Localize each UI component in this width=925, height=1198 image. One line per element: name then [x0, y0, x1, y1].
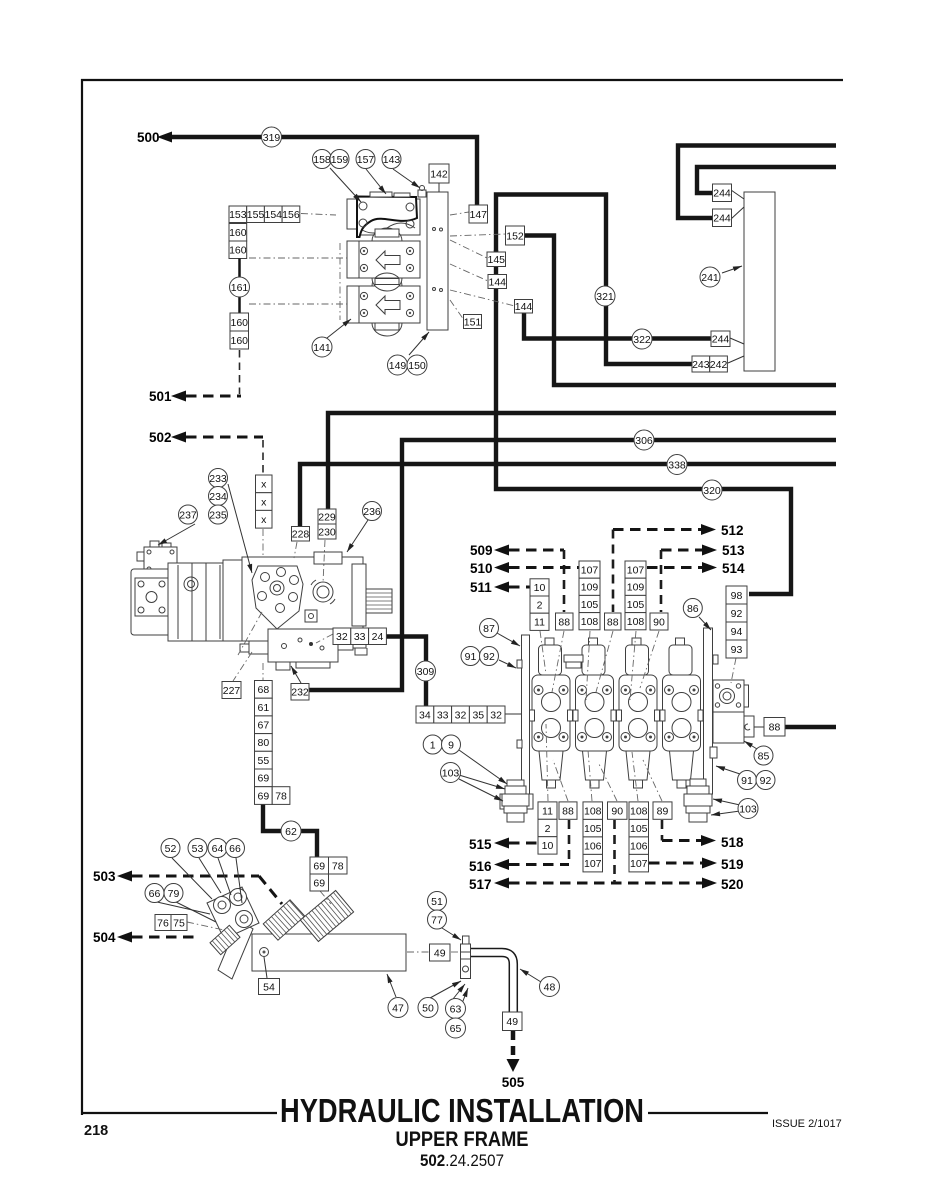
leader arrow from circles 51/77 to fitting: [442, 928, 461, 940]
page border frame bottom-right segment: [648, 1112, 768, 1114]
svg-text:x: x: [261, 514, 267, 526]
fitting 88 a: [556, 613, 574, 630]
svg-text:106: 106: [630, 840, 648, 852]
fittings 61 67 80 55 69: [255, 698, 273, 787]
svg-text:67: 67: [258, 720, 270, 732]
svg-text:161: 161: [231, 282, 249, 294]
port 518 arrow from fitting 89: [662, 820, 744, 850]
hose 62: [281, 821, 301, 841]
valve bank outlet block (85 target): [713, 680, 749, 712]
svg-text:513: 513: [722, 543, 745, 558]
svg-text:501: 501: [149, 389, 172, 404]
hose 320 from fitting 144 down and right to valve bank fitting 98: [496, 250, 791, 594]
dash-dot leaders from fittings 153-156 to valve modules: [301, 214, 336, 216]
fittings 69 78 upper: [255, 787, 290, 805]
dash-dot leaders from upper fittings to valve sections: [540, 631, 546, 674]
valve bank section 2: [573, 638, 616, 788]
dash-dot leaders from plate to fittings 147/152/145/144/144/151: [450, 212, 469, 215]
svg-text:160: 160: [230, 335, 248, 347]
svg-text:85: 85: [758, 750, 770, 762]
hose 306: [634, 430, 654, 450]
fitting 89: [653, 802, 672, 819]
bolt 51: [428, 892, 447, 911]
fittings 160 160 upper: [229, 224, 247, 259]
washer 92 a: [480, 647, 499, 666]
leader dashed from fittings 160 to port 501: [239, 350, 241, 394]
svg-text:92: 92: [760, 775, 772, 787]
dash-dot leader from fitting 98 stack to outlet: [731, 658, 736, 683]
port 504 arrow: [93, 930, 194, 945]
svg-text:55: 55: [258, 755, 270, 767]
tank port B (69 target) hatched: [300, 890, 353, 941]
svg-text:35: 35: [472, 709, 484, 721]
leader from outlet to fitting 88: [754, 726, 764, 728]
hose 62 between fittings 69/78: [263, 804, 317, 858]
svg-text:155: 155: [247, 209, 265, 221]
port 510 arrow from fitting 107: [470, 561, 579, 576]
svg-text:517: 517: [469, 877, 492, 892]
valve module left stubs: [347, 199, 359, 229]
fittings 69 78 lower: [310, 857, 347, 874]
svg-text:103: 103: [442, 767, 460, 779]
svg-text:511: 511: [470, 580, 492, 595]
dash-dot leader from fittings X to pump: [262, 529, 264, 558]
plate 235: [209, 505, 228, 524]
leader from circle 241 to cooler: [722, 266, 742, 273]
hose 322 from fitting 144 to cooler fitting 244: [524, 312, 713, 339]
valve bank section 1: [530, 638, 573, 788]
fittings 108 105 106 107 second lower: [629, 802, 649, 872]
leader arrow from circles 91/92 to left plate: [499, 660, 516, 668]
valve assembly 141 mounting plate 142: [427, 192, 448, 330]
svg-text:244: 244: [712, 334, 730, 346]
svg-text:11: 11: [534, 617, 545, 629]
leader from circles 158/159 to bracket bolt: [330, 168, 361, 202]
dash-dot leader from fittings 229/230 to port ring: [323, 540, 325, 583]
svg-text:107: 107: [627, 564, 645, 576]
svg-text:244: 244: [713, 188, 731, 200]
fittings 98 92 94 93: [726, 586, 747, 658]
svg-text:UPPER FRAME: UPPER FRAME: [396, 1128, 529, 1151]
fitting 88 b: [605, 613, 622, 630]
svg-text:88: 88: [769, 722, 781, 734]
svg-text:88: 88: [562, 805, 574, 817]
fitting 244 upper: [713, 184, 732, 202]
pump valve 237 on motor top: [137, 541, 177, 574]
svg-text:160: 160: [229, 245, 247, 257]
leader arrow from circles 1/9 to filter: [459, 750, 507, 784]
dash-dot leaders from lower fittings to valve sections: [546, 724, 548, 801]
svg-text:98: 98: [731, 590, 743, 602]
hose 322: [632, 329, 652, 349]
svg-text:229: 229: [318, 511, 336, 523]
port 509 arrow from fitting 88: [470, 543, 564, 612]
fittings 107 109 105 108 second: [625, 561, 646, 630]
svg-text:237: 237: [179, 509, 197, 521]
svg-text:93: 93: [731, 644, 743, 656]
svg-text:106: 106: [584, 840, 602, 852]
bracket 157: [356, 150, 375, 169]
tank 47: [388, 998, 408, 1018]
fitting 142: [429, 164, 449, 183]
svg-text:503: 503: [93, 869, 116, 884]
leader arrows from circle 103 left to filter: [459, 775, 505, 789]
svg-text:244: 244: [713, 213, 731, 225]
hose 309: [416, 661, 436, 681]
leader from circle 157 to bracket: [366, 169, 386, 194]
svg-text:107: 107: [630, 858, 648, 870]
leader arrows from circle 103 right to filter: [713, 799, 740, 805]
svg-text:241: 241: [701, 272, 719, 284]
svg-text:69: 69: [258, 790, 270, 802]
fittings 76 75: [155, 915, 187, 931]
fitting 49 b: [503, 1012, 523, 1031]
fitting 227: [222, 682, 241, 699]
port 502 arrow: [149, 430, 263, 445]
hose 319: [262, 127, 282, 147]
svg-text:32: 32: [336, 631, 348, 643]
fitting 151: [464, 315, 482, 329]
svg-text:105: 105: [581, 599, 599, 611]
svg-text:109: 109: [581, 582, 599, 594]
svg-text:105: 105: [584, 823, 602, 835]
pump port 229/230 ring: [311, 580, 335, 604]
svg-text:2: 2: [545, 823, 551, 835]
svg-text:107: 107: [584, 858, 602, 870]
fittings 34 33 32 35 32: [416, 706, 505, 723]
fittings 32 33 24: [333, 628, 386, 645]
svg-text:49: 49: [506, 1016, 518, 1028]
valve module 3 (bottom): [359, 286, 420, 323]
svg-text:160: 160: [230, 317, 248, 329]
hose from cooler lower fitting 244 exiting right edge: [678, 146, 836, 219]
valve bank 1: [423, 735, 442, 754]
bracket top tabs: [370, 192, 392, 197]
page border frame top: [81, 79, 843, 81]
svg-text:62: 62: [285, 826, 297, 838]
valve bank right end plate 86: [704, 628, 719, 794]
svg-text:505: 505: [502, 1075, 525, 1090]
svg-text:151: 151: [464, 316, 482, 328]
leader arrows from circles 63/65 to fitting: [453, 984, 465, 999]
hose 320: [702, 480, 722, 500]
valve module 1 (top): [359, 199, 420, 235]
svg-text:34: 34: [419, 709, 431, 721]
svg-text:108: 108: [627, 616, 645, 628]
svg-text:69: 69: [313, 877, 325, 889]
hose 338 from pump fitting 228 exiting right edge: [300, 464, 836, 528]
pump small port block: [305, 610, 317, 622]
svg-text:309: 309: [417, 666, 435, 678]
leader arrow from circles 91/92 to right plate: [716, 766, 740, 774]
svg-text:49: 49: [434, 947, 446, 959]
svg-text:32: 32: [455, 709, 467, 721]
fitting 69: [310, 874, 329, 891]
fittings 243 242: [692, 356, 727, 372]
fittings 160 160 lower: [230, 313, 249, 349]
pump housing center section: [168, 563, 242, 641]
svg-text:141: 141: [313, 342, 331, 354]
seal 66 b: [145, 884, 164, 903]
fitting 143 on top of plate: [418, 186, 426, 198]
port 505 arrow: [502, 1031, 525, 1090]
fittings 107 109 105 108 first: [579, 561, 600, 630]
svg-text:150: 150: [408, 360, 426, 372]
svg-text:160: 160: [229, 227, 247, 239]
svg-text:242: 242: [710, 359, 728, 371]
svg-text:512: 512: [721, 523, 744, 538]
bracket 157 (curved cover): [357, 197, 417, 238]
svg-text:319: 319: [263, 132, 281, 144]
tank port A (503 target) hatched: [263, 900, 304, 940]
svg-text:232: 232: [291, 687, 309, 699]
svg-text:227: 227: [223, 685, 241, 697]
svg-text:69: 69: [313, 860, 325, 872]
svg-text:109: 109: [627, 582, 645, 594]
fitting 50: [418, 998, 438, 1018]
filter 103 right: [738, 799, 758, 819]
valve module 2 (middle): [359, 241, 420, 278]
svg-text:2: 2: [537, 599, 543, 611]
svg-text:230: 230: [318, 526, 336, 538]
svg-text:509: 509: [470, 543, 493, 558]
fitting 152: [506, 226, 525, 245]
port 515 arrow from fitting 10: [469, 837, 538, 852]
valve 237: [179, 505, 198, 524]
svg-text:306: 306: [635, 435, 653, 447]
svg-text:x: x: [261, 496, 267, 508]
hose 48 from fitting 50 to port 505 (outlined tube): [469, 953, 513, 1013]
hose from cooler upper fitting 244 exiting right edge: [697, 167, 836, 193]
svg-text:80: 80: [258, 737, 270, 749]
svg-text:33: 33: [354, 631, 366, 643]
svg-text:88: 88: [607, 616, 619, 628]
svg-text:48: 48: [544, 981, 556, 993]
svg-text:x: x: [261, 479, 267, 491]
hose 48: [540, 977, 560, 997]
fitting 144 lower: [515, 300, 533, 314]
svg-text:88: 88: [558, 616, 570, 628]
pump port face plate (233/234/235 target): [252, 566, 303, 629]
leader lines from circles 66/79 to block: [157, 902, 210, 914]
fitting 54: [259, 979, 280, 995]
svg-text:50: 50: [422, 1002, 434, 1014]
leader from fitting 54 to port: [264, 957, 267, 978]
washer 92 b: [756, 771, 775, 790]
fitting 68: [255, 681, 273, 699]
svg-text:236: 236: [363, 506, 381, 518]
hose from pump fittings 229/230 exiting right edge: [328, 413, 836, 510]
filter unit left (103): [502, 780, 529, 822]
svg-text:516: 516: [469, 859, 492, 874]
leader from fitting 232 to block: [291, 666, 301, 683]
valve bank outlet lower block: [713, 712, 754, 743]
hose from fitting 152 exiting right edge: [524, 236, 836, 386]
hose 319 from port 500 to fitting 147: [171, 137, 477, 205]
fitting 49 a: [430, 944, 451, 961]
svg-text:90: 90: [653, 616, 665, 628]
pump control valve block 227/232: [240, 629, 366, 670]
svg-text:145: 145: [487, 254, 505, 266]
leader arrow from circle 86 to right plate: [699, 617, 711, 630]
svg-text:69: 69: [258, 773, 270, 785]
washer 159: [330, 150, 349, 169]
port 54 on tank: [260, 948, 269, 957]
svg-text:105: 105: [627, 599, 645, 611]
svg-text:149: 149: [389, 360, 407, 372]
leader from circle 141 to valve body: [327, 319, 351, 338]
fitting 244 second: [713, 209, 732, 227]
svg-text:159: 159: [331, 154, 349, 166]
bolt 149: [388, 355, 408, 375]
bolt 91 a: [461, 647, 480, 666]
inter-module connector domes: [372, 228, 402, 241]
hose 321: [595, 286, 615, 306]
svg-text:78: 78: [275, 790, 287, 802]
leader from circle 143 to fitting: [393, 169, 420, 188]
leader arrow from circle 85 to outlet block: [744, 741, 757, 749]
filter 103 left: [441, 763, 461, 783]
port 513 arrow from fitting 90: [661, 543, 745, 612]
port 500 arrow: [137, 130, 172, 145]
svg-text:92: 92: [483, 651, 495, 663]
leader from fittings 34/33/32/35/32 to left plate: [505, 713, 521, 715]
valve bank left end plate 87: [500, 635, 533, 809]
pump 236: [363, 502, 382, 521]
svg-text:158: 158: [313, 154, 331, 166]
leader from circles 149/150 to plate bottom: [409, 332, 429, 355]
svg-text:235: 235: [209, 509, 227, 521]
dash-dot leader from block to fitting 227: [233, 652, 252, 681]
tank end plate 54 area: [218, 920, 253, 979]
port 516 arrow from fitting 88: [469, 820, 569, 874]
svg-text:153: 153: [229, 209, 247, 221]
hose 338: [667, 455, 687, 475]
svg-text:64: 64: [212, 843, 224, 855]
leader lines from circles 52/53/64/66 to block: [172, 858, 212, 899]
svg-text:144: 144: [488, 276, 506, 288]
washer 150: [407, 355, 427, 375]
leader arrows from circles 233/234/235 to pump face plate: [228, 484, 252, 573]
valve 141: [312, 337, 332, 357]
svg-text:75: 75: [173, 917, 185, 929]
fittings 153 155 154 156: [229, 206, 300, 223]
fitting 228: [292, 527, 310, 542]
dash-dot leader from fitting 228 to pump: [294, 542, 297, 558]
svg-text:33: 33: [437, 709, 449, 721]
svg-text:63: 63: [450, 1003, 462, 1015]
tank 47 body: [252, 934, 406, 971]
washer 234: [209, 487, 228, 506]
svg-text:152: 152: [506, 230, 524, 242]
block 85: [754, 746, 773, 765]
svg-text:91: 91: [465, 651, 477, 663]
svg-text:108: 108: [581, 616, 599, 628]
svg-text:157: 157: [357, 154, 375, 166]
svg-text:322: 322: [633, 334, 651, 346]
svg-text:103: 103: [739, 803, 757, 815]
svg-text:234: 234: [209, 491, 227, 503]
svg-text:144: 144: [515, 301, 533, 313]
hatched stub fitting below block (76/75 target): [210, 925, 240, 954]
leader from box 142 to plate: [438, 183, 440, 192]
svg-text:338: 338: [668, 459, 686, 471]
fitting 143: [382, 150, 401, 169]
wire link 160 to 161: [238, 259, 241, 315]
svg-text:243: 243: [692, 359, 710, 371]
pump end plate: [223, 560, 242, 641]
port 519 arrow from fitting 107: [649, 857, 744, 872]
leaders from fittings 244/243/242 to cooler: [731, 190, 744, 199]
part 63: [446, 999, 466, 1019]
svg-text:94: 94: [731, 626, 743, 638]
svg-text:320: 320: [703, 485, 721, 497]
svg-text:502: 502: [149, 430, 172, 445]
svg-text:143: 143: [383, 154, 401, 166]
svg-text:10: 10: [534, 582, 546, 594]
svg-text:32: 32: [490, 709, 502, 721]
fittings 229 230: [318, 509, 336, 539]
valve bank section 4: [660, 638, 703, 788]
svg-text:147: 147: [469, 209, 487, 221]
hose 306 from pump fitting 232 exiting right edge: [309, 440, 836, 690]
fitting 161: [230, 277, 250, 297]
svg-text:53: 53: [192, 843, 204, 855]
dash-dot leader from pump face to fitting 227 area: [238, 612, 262, 655]
svg-text:518: 518: [721, 835, 744, 850]
port 511 arrow from fitting 10: [470, 580, 530, 595]
dash-dot leader from block to fitting 68: [262, 663, 264, 680]
svg-text:321: 321: [596, 291, 614, 303]
fitting 147: [469, 205, 488, 223]
page border frame left: [81, 79, 83, 1115]
fitting 88 lower: [559, 802, 577, 819]
svg-text:66: 66: [229, 843, 241, 855]
hose from valve bank outlet fitting 88 exiting right edge: [784, 725, 836, 729]
svg-text:68: 68: [258, 684, 270, 696]
U-clip below fitting 33: [355, 648, 367, 655]
svg-text:HYDRAULIC INSTALLATION: HYDRAULIC INSTALLATION: [280, 1093, 644, 1130]
port 514 arrow from fitting 107: [647, 561, 745, 576]
svg-text:92: 92: [731, 608, 743, 620]
bolt 52: [161, 839, 180, 858]
fitting 244 at cooler: [711, 331, 730, 347]
svg-text:502.24.2507: 502.24.2507: [420, 1152, 504, 1170]
dash-dot leader from fittings 32/33/24 to block fitting: [316, 634, 333, 643]
fitting 90 lower: [608, 802, 628, 819]
svg-text:24: 24: [372, 631, 384, 643]
leader arrow from circle 48 to hose: [520, 969, 541, 982]
bolt 91 b: [738, 771, 757, 790]
pump splined shaft: [366, 589, 392, 613]
leader arrow from circle 237 to valve: [158, 524, 195, 545]
leader arrow from circle 236 to pump top: [347, 520, 368, 552]
cooler 241: [700, 267, 720, 287]
svg-text:154: 154: [264, 209, 282, 221]
svg-text:519: 519: [721, 857, 744, 872]
svg-text:54: 54: [263, 981, 275, 993]
fitting 232: [291, 684, 309, 701]
svg-text:9: 9: [448, 739, 454, 751]
svg-text:515: 515: [469, 837, 492, 852]
part 65: [446, 1018, 466, 1038]
svg-text:142: 142: [430, 168, 448, 180]
svg-text:500: 500: [137, 130, 160, 145]
svg-text:10: 10: [542, 840, 554, 852]
svg-text:108: 108: [584, 805, 602, 817]
svg-text:87: 87: [483, 623, 495, 635]
dash-dot from tank to fitting 49: [407, 951, 429, 953]
